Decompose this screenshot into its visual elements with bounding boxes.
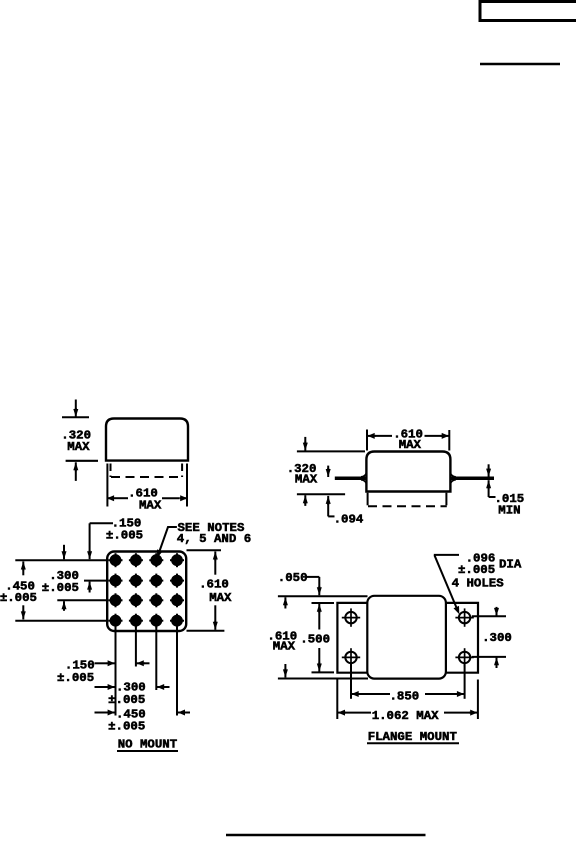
view C package body outline [107,552,186,632]
label .610 MAX (view C) [199,578,232,605]
svg-text:±.005: ±.005 [108,693,145,707]
svg-text:±.005: ±.005 [458,563,495,577]
label .610 MAX (view A) [128,486,162,512]
title FLANGE MOUNT [367,730,459,744]
svg-text:±.005: ±.005 [108,720,145,734]
label .300 ±.005 (view C bottom) [108,680,146,707]
label .610 MAX (view D) [267,629,297,653]
view A package body outline [106,419,188,461]
dim .610 MAX arrows (view B) [368,433,449,439]
label .015 MIN [495,492,525,518]
svg-text:MAX: MAX [399,438,422,452]
svg-text:MAX: MAX [209,591,232,605]
view B right lead [451,477,494,481]
dim .610 MAX extension lines (view A) [107,464,187,507]
svg-text:.050: .050 [278,571,308,585]
label .096 ±.005 DIA 4 HOLES [452,551,522,590]
pin grid 4x4 (view C) [109,553,185,628]
label .450 ±.005 (view C bottom) [108,707,146,733]
dim .320 MAX extension lines (view B) [297,451,365,494]
view A seating plane extension line [66,460,98,462]
dim .300 bottom arrows (view C) [95,684,170,690]
dim .500 arrows [317,604,322,672]
dim .050 leader [278,571,322,595]
svg-text:±.005: ±.005 [57,671,94,685]
dim .300 arrows (view C left) [62,545,67,611]
svg-text:.610: .610 [199,578,229,592]
dim .610 MAX arrows (view D) [283,597,288,677]
svg-text:.300: .300 [482,631,512,645]
dim .320 MAX upper arrow (view A) [73,400,78,418]
pin row extension lines (view C left) [15,560,106,621]
svg-text:FLANGE MOUNT: FLANGE MOUNT [368,730,458,744]
title NO MOUNT [117,738,178,752]
label .320 MAX (view A) [61,428,91,454]
dim .450 bottom arrows (view C) [95,710,191,716]
dim .320 MAX lower arrow (view A) [73,462,78,481]
dim .610 MAX extension lines (view B) [367,430,449,451]
svg-text:±.005: ±.005 [106,528,143,542]
label .610 MAX (view B) [393,428,423,453]
svg-text:MAX: MAX [273,640,296,654]
mounting holes (4x) [342,608,474,666]
label .150 ±.005 (view C bottom) [57,658,95,685]
label SEE NOTES 4, 5 AND 6 [177,521,251,546]
svg-text:MAX: MAX [67,440,90,454]
svg-text:1.062 MAX: 1.062 MAX [372,709,439,723]
view A top extension line [62,416,89,418]
svg-text:MIN: MIN [498,504,520,518]
label .450 ±.005 (view C left) [0,579,37,605]
hole diameter leader [434,555,460,614]
view B left lead [335,477,366,481]
svg-text:.850: .850 [390,690,420,704]
view A hidden pin region dashed outline [111,464,183,478]
dim .610 MAX extension lines (view C right) [187,550,225,631]
view B lead fillets [361,473,456,484]
see-notes leader arrow [157,527,177,558]
svg-text:±.005: ±.005 [42,581,79,595]
dim .850 extension lines [351,664,465,699]
dim .150 bottom arrows (view C) [95,660,150,666]
svg-text:±.005: ±.005 [0,591,37,605]
dim 1.062 MAX extension lines [337,680,478,720]
svg-text:DIA: DIA [499,558,522,572]
pin column extension lines (view C bottom) [116,626,178,716]
view B hidden pin region dashed outline [368,493,447,507]
view D body bottom extension line [278,678,368,680]
label .300 ±.005 (view C left) [42,569,79,595]
flange bottom extension line [312,671,335,673]
svg-text:.500: .500 [300,633,330,647]
label .320 MAX (view B) [287,462,318,486]
dim .320 MAX arrows (view B) [303,437,308,506]
dim .150 leader (view C top) [87,523,113,559]
svg-text:MAX: MAX [139,499,162,513]
dim .850 arrows [352,691,465,697]
flange right tab outline [446,603,478,673]
dim .300 arrows (view D) [494,607,499,668]
flange left tab outline [337,603,367,673]
view B package body outline [366,452,450,492]
title block box (top right) [480,2,576,21]
view D body top extension line [278,595,368,597]
footer rule line [226,834,426,836]
dim 1.062 MAX arrows [338,710,478,716]
svg-text:4, 5 AND 6: 4, 5 AND 6 [177,532,251,546]
header rule line [480,63,560,66]
label .150 ±.005 (view C top) [106,517,143,543]
svg-text:NO MOUNT: NO MOUNT [118,738,178,752]
view D package body outline [367,596,446,679]
svg-text:4 HOLES: 4 HOLES [452,577,505,591]
dim .610 MAX arrows (view A) [107,495,187,501]
svg-text:.094: .094 [334,512,364,526]
flange top extension line [312,602,335,604]
dim .300 extension lines (view D) [472,616,506,657]
dim .015 MIN arrows [486,464,495,497]
dim .094 arrow and leader [326,496,335,517]
dim .450 arrows (view C left) [21,562,26,620]
lead seating arrow (view B) [326,466,331,477]
dim .610 MAX arrows (view C right) [213,552,218,630]
svg-text:MAX: MAX [295,473,318,487]
dim .150 lower arrow (view C) [87,582,92,593]
